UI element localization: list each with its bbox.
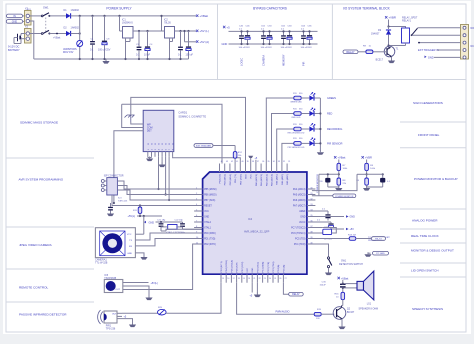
svg-text:PB5 (MOSI): PB5 (MOSI) bbox=[204, 189, 217, 191]
svg-text:21: 21 bbox=[253, 278, 255, 280]
svg-text:PB3 (AIN1): PB3 (AIN1) bbox=[224, 174, 227, 185]
svg-text:DET: DET bbox=[147, 130, 152, 133]
port label RS-TX bbox=[372, 237, 386, 241]
svg-text:LM2940-5: LM2940-5 bbox=[122, 22, 133, 25]
wire ext trigger ic bbox=[213, 145, 235, 147]
transistor T1 BC517 bbox=[384, 46, 395, 57]
wire led GREEN bbox=[266, 98, 294, 164]
svg-text:C21 18p: C21 18p bbox=[157, 219, 166, 221]
svg-text:MEMORY: MEMORY bbox=[281, 54, 285, 66]
svg-text:3: 3 bbox=[196, 198, 197, 200]
pin left PD0 (RXD) bbox=[194, 232, 203, 234]
pin left PB7 (SCK) bbox=[194, 199, 203, 201]
svg-text:RESET: RESET bbox=[204, 206, 212, 208]
svg-text:+VBatt: +VBatt bbox=[341, 277, 349, 280]
port label GND bbox=[6, 20, 22, 24]
svg-text:+5V: +5V bbox=[350, 228, 355, 231]
capacitor C34 avcc bbox=[312, 221, 331, 223]
wire isp MOSI bbox=[117, 181, 202, 189]
svg-text:+VBR: +VBR bbox=[389, 16, 396, 20]
ground ic bottom bbox=[256, 293, 258, 295]
sd card bottom pins bbox=[147, 152, 149, 157]
net +VBR monitor bbox=[362, 156, 364, 158]
port label EXT TRIGGER bbox=[194, 144, 213, 148]
svg-text:30: 30 bbox=[310, 187, 312, 189]
svg-text:REAL TIME CLOCK: REAL TIME CLOCK bbox=[411, 234, 440, 238]
wire xtal rows bbox=[177, 226, 183, 228]
svg-text:RELAY: RELAY bbox=[346, 50, 355, 54]
pin bottom PD4 (OC1B) bbox=[225, 274, 227, 283]
svg-text:78L05: 78L05 bbox=[164, 22, 171, 25]
wire monitor tap left bbox=[318, 174, 320, 196]
pin top PB3 (AIN1) bbox=[224, 164, 226, 173]
right margin dividers bbox=[400, 121, 466, 123]
camera lens bbox=[102, 233, 122, 253]
ground leds bbox=[319, 150, 321, 152]
pin right PA6 (ADC6) bbox=[307, 199, 316, 201]
svg-text:PD3 (INT1): PD3 (INT1) bbox=[221, 261, 223, 272]
svg-text:31: 31 bbox=[288, 161, 290, 163]
diode D9 1N4007 bbox=[388, 27, 390, 30]
ground camera bbox=[143, 255, 145, 257]
svg-text:PA4 (ADC4): PA4 (ADC4) bbox=[293, 188, 306, 191]
capacitor C6 100uF bbox=[188, 31, 190, 46]
ground ir bbox=[148, 296, 150, 298]
svg-text:7: 7 bbox=[196, 220, 197, 222]
svg-text:PASSIVE INFRARED DETECTOR: PASSIVE INFRARED DETECTOR bbox=[19, 313, 67, 317]
svg-text:PB0 (XCK): PB0 (XCK) bbox=[240, 174, 242, 185]
svg-text:CAMERA: CAMERA bbox=[261, 55, 265, 66]
svg-text:PA5 (ADC5): PA5 (ADC5) bbox=[293, 194, 306, 197]
speaker LS1 bbox=[357, 281, 364, 290]
connector X2 bbox=[25, 11, 32, 26]
resistor R16 10 bbox=[341, 292, 345, 299]
svg-text:PD2 (INT0): PD2 (INT0) bbox=[204, 244, 216, 246]
wire pc4 to switch bbox=[312, 244, 329, 257]
resistor R9 1k bbox=[366, 50, 373, 54]
pin top PB2 (AIN0) bbox=[229, 164, 231, 173]
svg-text:AREF: AREF bbox=[299, 210, 306, 213]
camera CAMERA1 box bbox=[95, 228, 135, 258]
svg-text:26: 26 bbox=[279, 278, 281, 280]
led LED21 bbox=[301, 97, 309, 99]
wire gnd rail bbox=[34, 58, 189, 60]
port label PC GND bbox=[373, 251, 389, 255]
svg-text:6: 6 bbox=[196, 215, 197, 217]
ground switch bbox=[328, 271, 330, 273]
svg-text:+5: +5 bbox=[227, 25, 231, 29]
led LED22 bbox=[301, 113, 309, 115]
svg-text:100 uF: 100 uF bbox=[186, 54, 194, 57]
svg-text:PC0 (SCL): PC0 (SCL) bbox=[257, 262, 259, 273]
chassis symbol bbox=[125, 115, 135, 122]
pin right PA4 (ADC4) bbox=[307, 188, 316, 190]
svg-text:NO: NO bbox=[471, 27, 474, 30]
svg-text:GND: GND bbox=[300, 217, 305, 219]
svg-text:POWER SUPPLY: POWER SUPPLY bbox=[106, 7, 132, 11]
relay contacts bbox=[412, 28, 418, 35]
pin right AVCC bbox=[307, 221, 316, 223]
svg-text:RED LED: RED LED bbox=[292, 117, 301, 119]
svg-text:PD0 (RXD): PD0 (RXD) bbox=[204, 233, 216, 235]
svg-text:18: 18 bbox=[238, 278, 240, 280]
pin left PD1 (TXD) bbox=[194, 238, 203, 240]
wire monitor tap right bbox=[312, 174, 357, 190]
wire IC2 out bbox=[175, 30, 197, 32]
svg-text:34: 34 bbox=[273, 161, 275, 163]
svg-text:38: 38 bbox=[252, 161, 254, 163]
svg-text:PC5 (A): PC5 (A) bbox=[282, 265, 285, 273]
svg-text:PIR: PIR bbox=[301, 62, 305, 66]
svg-text:AVR SYSTEM PROGRAMMING: AVR SYSTEM PROGRAMMING bbox=[19, 178, 64, 182]
svg-text:100 uF/16V: 100 uF/16V bbox=[239, 47, 251, 49]
svg-text:LS1: LS1 bbox=[367, 302, 372, 305]
svg-text:SD/MMC MASS STORAGE: SD/MMC MASS STORAGE bbox=[20, 121, 58, 125]
svg-text:11: 11 bbox=[196, 242, 198, 244]
svg-text:43: 43 bbox=[226, 161, 228, 163]
svg-text:GND: GND bbox=[350, 216, 356, 219]
wire camera vcc bbox=[135, 233, 143, 235]
wire speaker top bbox=[343, 283, 357, 285]
svg-text:GND: GND bbox=[127, 253, 132, 255]
svg-text:GND: GND bbox=[204, 217, 209, 219]
pin left XTAL2 bbox=[194, 221, 203, 223]
svg-text:GND: GND bbox=[246, 174, 248, 179]
pin right PC6 (TOSC1) bbox=[307, 232, 316, 234]
svg-text:PD7 (OC2): PD7 (OC2) bbox=[242, 262, 244, 273]
net +5 bypass bbox=[223, 26, 225, 28]
svg-text:RELAY1: RELAY1 bbox=[402, 20, 412, 23]
pin top PA1 (ADC) bbox=[281, 164, 283, 173]
svg-text:MONITOR & DEBUG OUTPUT: MONITOR & DEBUG OUTPUT bbox=[411, 249, 454, 253]
svg-text:XTAL1: XTAL1 bbox=[204, 227, 212, 230]
svg-text:+VBatt: +VBatt bbox=[53, 37, 61, 40]
wire pir gnd bbox=[117, 319, 133, 324]
svg-text:33: 33 bbox=[278, 161, 280, 163]
svg-text:25: 25 bbox=[274, 278, 276, 280]
wire isp RST bbox=[112, 195, 203, 206]
wire led RECORDING bbox=[277, 129, 294, 164]
svg-text:+5V(L): +5V(L) bbox=[128, 215, 136, 218]
svg-text:RX: RX bbox=[129, 246, 133, 248]
svg-text:1N4002: 1N4002 bbox=[71, 9, 80, 12]
pin top PB0 (XCK) bbox=[239, 164, 241, 173]
svg-text:+5V (A): +5V (A) bbox=[200, 40, 210, 44]
svg-text:10: 10 bbox=[196, 237, 198, 239]
svg-text:GND: GND bbox=[222, 42, 228, 46]
wire ir out bbox=[123, 244, 203, 290]
net +VBR relay bbox=[385, 16, 387, 18]
capacitor C3 0.1 bbox=[138, 31, 140, 47]
svg-text:DETECTION SWITCH: DETECTION SWITCH bbox=[339, 263, 363, 266]
wire relay top bbox=[389, 20, 406, 29]
svg-text:SDMMC-1 CIGARETTE: SDMMC-1 CIGARETTE bbox=[178, 114, 206, 118]
wire xtal2 to ic bbox=[183, 228, 203, 230]
wire rail1 bbox=[131, 97, 246, 163]
resistor R13 4k7 bbox=[312, 238, 349, 240]
svg-text:PB1 (T1): PB1 (T1) bbox=[235, 174, 237, 183]
pin bottom PD3 (INT1) bbox=[220, 274, 222, 283]
resistor R5 100k bbox=[366, 160, 368, 164]
port label RELAY in bbox=[343, 50, 358, 54]
wire camera rx bbox=[135, 239, 202, 246]
svg-text:SPEECH SYNTHESIS: SPEECH SYNTHESIS bbox=[412, 307, 443, 311]
svg-text:VCC: VCC bbox=[247, 268, 249, 273]
svg-text:LOGIC: LOGIC bbox=[239, 58, 243, 66]
camera inner square bbox=[100, 231, 125, 256]
svg-text:EXT TRIGGER: EXT TRIGGER bbox=[196, 146, 211, 148]
resistor LED24 R bbox=[294, 142, 301, 146]
svg-text:44: 44 bbox=[221, 161, 223, 163]
led LED24 bbox=[301, 142, 309, 144]
ground pir bbox=[132, 323, 134, 325]
svg-text:100 uF/25V: 100 uF/25V bbox=[98, 49, 111, 52]
svg-text:POWER MONITOR: POWER MONITOR bbox=[335, 196, 354, 198]
svg-text:VCC: VCC bbox=[127, 234, 132, 236]
pin top PB1 (T1) bbox=[234, 164, 236, 173]
capacitor C4 10uF bbox=[147, 31, 149, 46]
svg-text:1N4007: 1N4007 bbox=[371, 33, 380, 36]
wire xtal top rail bbox=[156, 221, 183, 223]
pin right AREF bbox=[307, 210, 316, 212]
svg-text:IC4: IC4 bbox=[248, 217, 253, 221]
svg-text:PB4 (SS): PB4 (SS) bbox=[220, 174, 222, 183]
pin top VCC bbox=[250, 164, 252, 173]
varistor R30 bbox=[79, 16, 81, 40]
pin top PB4 (SS) bbox=[219, 164, 221, 173]
wire D2 rail bbox=[71, 33, 80, 35]
wire led PIR SENSOR bbox=[282, 143, 294, 163]
pin top PA2 (ADC) bbox=[286, 164, 288, 173]
svg-text:PA6 (ADC6): PA6 (ADC6) bbox=[293, 199, 306, 202]
port label IN bbox=[7, 14, 23, 18]
wire ir gnd bbox=[123, 286, 149, 297]
capacitor C33 aref bbox=[312, 210, 328, 212]
relay K1 coil bbox=[402, 28, 410, 43]
wire camera tx bbox=[135, 233, 202, 240]
capacitor C5 0.1 bbox=[180, 31, 182, 47]
svg-text:RED: RED bbox=[327, 113, 332, 116]
wire xtal1 to ic bbox=[161, 230, 166, 232]
svg-text:PC6 (TOSC1): PC6 (TOSC1) bbox=[291, 233, 305, 235]
svg-text:32: 32 bbox=[310, 198, 312, 200]
svg-text:35: 35 bbox=[268, 161, 270, 163]
pin bottom GND bbox=[251, 274, 253, 283]
wire SW1A to D1 bbox=[49, 15, 66, 17]
pin right PA7 (ADC7) bbox=[307, 205, 316, 207]
pin left XTAL1 bbox=[194, 227, 203, 229]
svg-text:VCC: VCC bbox=[251, 174, 253, 179]
resistor R6 22k bbox=[365, 178, 369, 185]
svg-text:SW1: SW1 bbox=[43, 6, 49, 10]
pin right PC4 (TDO) bbox=[307, 243, 316, 245]
diode D2 1N4002 bbox=[66, 31, 71, 36]
svg-text:PA1 (ADC): PA1 (ADC) bbox=[281, 174, 284, 185]
wire bypass gnd rail bbox=[229, 43, 318, 45]
wire ic gnd bottom bbox=[256, 283, 258, 294]
resistor R12 bbox=[233, 152, 237, 159]
svg-text:PB7 (SCK): PB7 (SCK) bbox=[204, 200, 215, 202]
pin top GND bbox=[245, 164, 247, 173]
svg-text:PC1 (SDA): PC1 (SDA) bbox=[262, 262, 265, 273]
svg-text:16: 16 bbox=[227, 278, 229, 280]
svg-text:4: 4 bbox=[196, 204, 197, 206]
svg-text:5: 5 bbox=[196, 209, 197, 211]
resistor LED21 R bbox=[294, 96, 301, 100]
svg-text:PC GND: PC GND bbox=[376, 253, 385, 255]
wire relay coil bottom bbox=[389, 46, 406, 48]
pin left GND bbox=[194, 216, 203, 218]
wire isp SCK bbox=[117, 190, 202, 200]
pin bottom VCC bbox=[246, 274, 248, 283]
svg-text:PD4 (OC1B): PD4 (OC1B) bbox=[226, 260, 228, 273]
svg-text:GREEN LED: GREEN LED bbox=[290, 102, 302, 104]
svg-text:19: 19 bbox=[243, 278, 245, 280]
svg-text:GND: GND bbox=[428, 55, 434, 59]
resistor R8 22k bbox=[337, 178, 341, 185]
wire led RED bbox=[272, 114, 294, 164]
resistor LED23 R bbox=[294, 127, 301, 131]
svg-text:20: 20 bbox=[248, 278, 250, 280]
svg-text:PA2 (ADC): PA2 (ADC) bbox=[286, 174, 289, 185]
diode D1 1N4002 bbox=[66, 13, 71, 18]
svg-text:PIR SENSOR: PIR SENSOR bbox=[327, 142, 343, 145]
svg-text:PC3 (TMS): PC3 (TMS) bbox=[273, 261, 275, 272]
net +5V(A) bbox=[196, 40, 198, 42]
terminal block X4 bbox=[461, 25, 469, 60]
svg-text:GND: GND bbox=[252, 267, 254, 272]
pin left PB6 (MISO) bbox=[194, 194, 203, 196]
svg-text:PA2 (ADC2): PA2 (ADC2) bbox=[265, 174, 268, 186]
svg-text:33: 33 bbox=[310, 204, 312, 206]
wire camera gnd bbox=[135, 253, 144, 256]
net +VBatt monitor bbox=[334, 156, 336, 158]
svg-text:OUT: OUT bbox=[115, 289, 120, 291]
net +5V(L) bbox=[196, 30, 198, 32]
wire sd WP bbox=[131, 122, 143, 124]
svg-text:37: 37 bbox=[257, 161, 259, 163]
wire ext trigger bbox=[437, 49, 461, 51]
wire sd SCK bbox=[168, 157, 170, 200]
wire IC1 out bbox=[133, 30, 165, 32]
svg-text:MOV 15V: MOV 15V bbox=[63, 51, 74, 54]
svg-text:OUT: OUT bbox=[112, 314, 117, 316]
battery G1 bbox=[21, 33, 26, 35]
svg-text:RS-TX: RS-TX bbox=[375, 239, 382, 241]
svg-text:8: 8 bbox=[196, 226, 197, 228]
svg-text:41: 41 bbox=[236, 161, 238, 163]
svg-text:EXT TRIGGER IN: EXT TRIGGER IN bbox=[418, 48, 439, 52]
svg-text:100 uF/16V: 100 uF/16V bbox=[261, 47, 273, 49]
svg-text:RECORDING LED: RECORDING LED bbox=[288, 133, 305, 135]
pin bottom PC3 (TMS) bbox=[272, 274, 274, 283]
svg-text:36: 36 bbox=[262, 161, 264, 163]
ground monitor left bbox=[338, 186, 340, 188]
svg-text:POWER MONITOR: POWER MONITOR bbox=[317, 174, 319, 193]
svg-text:23: 23 bbox=[264, 278, 266, 280]
svg-text:TPS-236: TPS-236 bbox=[106, 327, 116, 330]
svg-text:+VBatt: +VBatt bbox=[338, 156, 346, 160]
wire X2 to SW1 bbox=[30, 15, 42, 17]
svg-text:PD6 (ICP): PD6 (ICP) bbox=[237, 262, 239, 272]
net +VBatt bbox=[196, 15, 198, 17]
svg-text:PC7 (TOSC2): PC7 (TOSC2) bbox=[291, 228, 305, 230]
wire r5 junction bbox=[366, 171, 368, 178]
svg-text:2: 2 bbox=[196, 193, 197, 195]
svg-text:BYPASS CAPACITORS: BYPASS CAPACITORS bbox=[253, 7, 287, 11]
wire SW1B to D2 bbox=[49, 33, 66, 35]
svg-text:I/O SYSTEM TERMINAL BLOCK: I/O SYSTEM TERMINAL BLOCK bbox=[343, 7, 391, 11]
pin right PC5 (TDI) bbox=[307, 238, 316, 240]
ground pc gnd bbox=[368, 252, 371, 254]
wire pwm audio bbox=[237, 283, 315, 315]
svg-text:R13 4k7: R13 4k7 bbox=[348, 234, 357, 236]
svg-text:15: 15 bbox=[222, 278, 224, 280]
svg-text:POWER MONITOR & BACKUP: POWER MONITOR & BACKUP bbox=[414, 177, 458, 181]
svg-text:ANALOG POWER: ANALOG POWER bbox=[412, 219, 438, 223]
svg-text:PC4 (TDO): PC4 (TDO) bbox=[294, 244, 306, 246]
svg-text:SIGN GENERATORS: SIGN GENERATORS bbox=[413, 101, 443, 105]
pir sensor PIR1 bbox=[98, 310, 103, 324]
crystal Q1 7.3728MHz bbox=[168, 225, 177, 230]
svg-text:XTAL2: XTAL2 bbox=[204, 221, 212, 224]
ground transistor bbox=[391, 59, 393, 61]
svg-text:40: 40 bbox=[242, 161, 244, 163]
svg-text:AVR_MEGA_32_QFP: AVR_MEGA_32_QFP bbox=[244, 230, 270, 234]
svg-text:PD5 (OC1A): PD5 (OC1A) bbox=[230, 260, 233, 273]
ferrite bead FB1 bbox=[158, 309, 167, 315]
capacitor C31 bbox=[382, 174, 384, 178]
detection switch SW2 bbox=[327, 257, 329, 259]
svg-text:GND: GND bbox=[12, 20, 18, 23]
svg-text:RELAY: RELAY bbox=[292, 293, 300, 296]
svg-text:JPEG VIDEO CAMERA: JPEG VIDEO CAMERA bbox=[19, 243, 53, 247]
capacitor C1 0.1 bbox=[92, 16, 94, 41]
sd card CARD1 bbox=[143, 110, 174, 151]
ground sd 2 bbox=[161, 157, 163, 164]
ground sd 1 bbox=[147, 156, 149, 159]
resistor LED22 R bbox=[294, 112, 301, 116]
pin left VCC bbox=[194, 210, 203, 212]
pin bottom PD5 (OC1A) bbox=[230, 274, 232, 283]
pin top PA2 (ADC2) bbox=[265, 164, 267, 173]
svg-text:BC517: BC517 bbox=[376, 59, 384, 62]
svg-text:SPEAKER 8 OHM: SPEAKER 8 OHM bbox=[359, 308, 379, 311]
led LED23 bbox=[301, 128, 309, 130]
wire rail2 bbox=[122, 104, 222, 163]
svg-text:BC337: BC337 bbox=[347, 311, 355, 314]
svg-text:17: 17 bbox=[233, 278, 235, 280]
pin left RESET bbox=[194, 205, 203, 207]
svg-text:+VBatt: +VBatt bbox=[200, 14, 209, 18]
svg-text:FRONT PANEL: FRONT PANEL bbox=[418, 133, 440, 137]
connector X3 bbox=[25, 29, 32, 44]
svg-text:PC5 (TDI): PC5 (TDI) bbox=[295, 239, 306, 241]
svg-text:VCC: VCC bbox=[204, 211, 209, 213]
wire r7 junction bbox=[338, 171, 340, 178]
pin top PA1 (ADC1) bbox=[260, 164, 262, 173]
svg-text:AVCC: AVCC bbox=[299, 221, 306, 224]
resistor R7 100k bbox=[338, 160, 340, 164]
wire bypass +5 rail bbox=[229, 30, 318, 32]
ground ic top bbox=[248, 156, 253, 158]
svg-text:100uF: 100uF bbox=[319, 285, 326, 287]
capacitor C40 bbox=[110, 203, 112, 207]
wire IN to X2 bbox=[23, 15, 26, 17]
pin top PA0 (ADC) bbox=[276, 164, 278, 173]
svg-text:32: 32 bbox=[283, 161, 285, 163]
pin bottom PD6 (ICP) bbox=[236, 274, 238, 283]
